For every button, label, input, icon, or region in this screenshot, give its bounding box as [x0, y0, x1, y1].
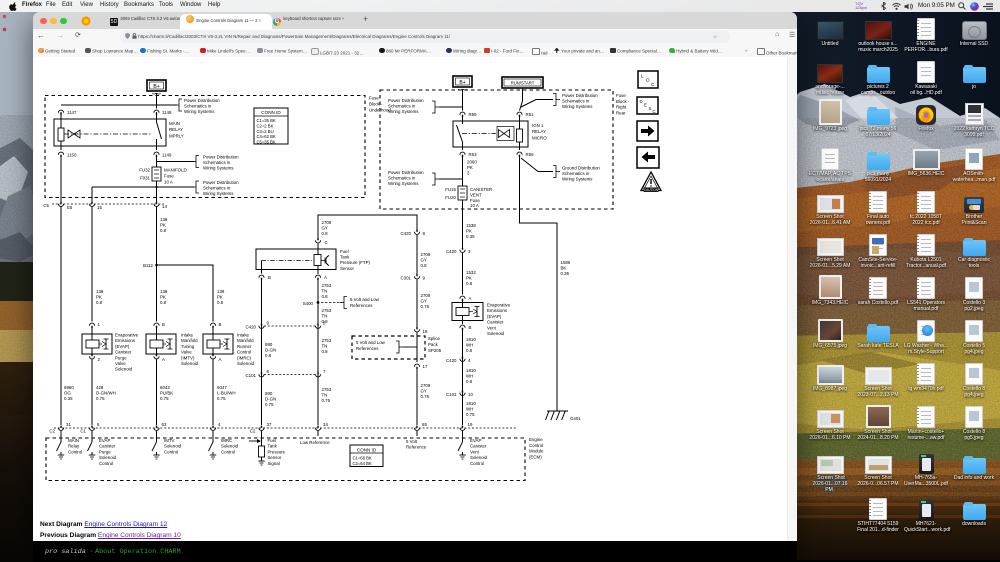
svg-text:Wiring Systems: Wiring Systems — [203, 191, 234, 196]
svg-text:17: 17 — [423, 364, 428, 369]
svg-text:R53: R53 — [469, 152, 478, 157]
svg-text:5: 5 — [97, 422, 100, 427]
svg-text:C1=35 BK: C1=35 BK — [257, 118, 276, 123]
wire fuse to 14 — [156, 181, 158, 202]
svg-text:2: 2 — [98, 357, 101, 362]
wire 2709 to splice pack — [416, 280, 418, 328]
svg-text:Fuse: Fuse — [369, 96, 379, 101]
svg-text:1810: 1810 — [466, 401, 476, 406]
splice pack SP205 — [352, 332, 442, 362]
svg-text:A: A — [324, 275, 327, 280]
svg-text:1150: 1150 — [67, 153, 77, 158]
svg-text:RUN/START: RUN/START — [511, 81, 535, 86]
svg-text:TN: TN — [322, 314, 328, 319]
svg-text:C: C — [653, 109, 656, 114]
svg-text:Wiring Systems: Wiring Systems — [562, 104, 593, 109]
svg-text:C5: C5 — [43, 203, 49, 208]
connector C101 row (pins 8,7) — [246, 369, 327, 378]
svg-text:Right: Right — [616, 105, 627, 110]
svg-text:31: 31 — [66, 422, 71, 427]
svg-text:Power Distribution: Power Distribution — [203, 155, 239, 160]
svg-text:Engine: Engine — [529, 437, 543, 442]
svg-text:5 Volt and Low: 5 Volt and Low — [356, 340, 386, 345]
svg-text:3: 3 — [468, 249, 471, 254]
svg-text:WH: WH — [466, 343, 473, 348]
svg-text:10: 10 — [468, 392, 473, 397]
svg-text:EVAP: EVAP — [99, 438, 110, 443]
svg-text:Wiring Systems: Wiring Systems — [388, 109, 419, 114]
svg-text:6042: 6042 — [160, 385, 170, 390]
driver main relay control — [57, 431, 83, 459]
node A (FTP signal) — [315, 275, 327, 280]
svg-text:Control: Control — [221, 449, 235, 454]
svg-text:References: References — [350, 303, 373, 308]
menu bar — [0, 0, 1000, 12]
svg-text:PK: PK — [217, 295, 223, 300]
svg-text:Canister: Canister — [99, 444, 116, 449]
svg-text:EVAP: EVAP — [470, 438, 481, 443]
svg-text:Solenoid: Solenoid — [99, 455, 117, 460]
svg-text:GY: GY — [421, 299, 427, 304]
svg-text:2753: 2753 — [322, 308, 332, 313]
svg-text:Canister: Canister — [470, 444, 487, 449]
svg-text:GY: GY — [421, 258, 427, 263]
svg-text:1586: 1586 — [561, 260, 571, 265]
svg-text:Solenoid: Solenoid — [181, 361, 199, 366]
svg-text:Splice: Splice — [428, 336, 441, 341]
svg-text:1532: 1532 — [466, 270, 476, 275]
svg-text:Purge: Purge — [115, 355, 127, 360]
svg-text:0.8: 0.8 — [265, 353, 272, 358]
svg-text:A: A — [162, 357, 165, 362]
svg-text:Power Distribution: Power Distribution — [562, 93, 598, 98]
svg-text:4: 4 — [468, 358, 471, 363]
svg-text:C3=2 BU: C3=2 BU — [257, 129, 274, 134]
svg-text:Power Distribution: Power Distribution — [388, 170, 424, 175]
svg-text:Wiring Systems: Wiring Systems — [388, 181, 419, 186]
svg-text:MPRLY: MPRLY — [169, 133, 184, 138]
wire B+ to R59 — [462, 89, 464, 111]
svg-text:Evaporative: Evaporative — [487, 303, 511, 308]
svg-text:0.8: 0.8 — [322, 294, 329, 299]
svg-text:Signal: Signal — [268, 461, 280, 466]
svg-text:MANIFOLD: MANIFOLD — [164, 168, 187, 173]
svg-text:Relay: Relay — [68, 444, 80, 449]
svg-text:0.75: 0.75 — [96, 396, 105, 401]
wire 1149 to fuse — [156, 156, 158, 167]
ground G401 — [546, 411, 582, 421]
svg-text:C420: C420 — [446, 249, 457, 254]
nav button DESC — [637, 97, 658, 114]
svg-text:Solenoid: Solenoid — [221, 444, 239, 449]
svg-text:2753: 2753 — [322, 283, 332, 288]
svg-text:Power Distribution: Power Distribution — [203, 180, 239, 185]
svg-text:Schematics in: Schematics in — [184, 104, 212, 109]
svg-text:2060: 2060 — [467, 160, 477, 165]
svg-text:C101: C101 — [246, 373, 257, 378]
svg-text:Vent: Vent — [470, 449, 480, 454]
svg-text:C301: C301 — [401, 276, 412, 281]
svg-text:3: 3 — [467, 171, 470, 176]
svg-text:SP205: SP205 — [428, 348, 442, 353]
svg-text:Evaporative: Evaporative — [115, 333, 139, 338]
svg-text:TN: TN — [322, 289, 328, 294]
nav button next arrow — [637, 121, 658, 141]
wire 2060 R53 to fuse — [462, 156, 464, 186]
node A vent solenoid — [460, 296, 472, 301]
svg-text:Power Distribution: Power Distribution — [184, 98, 220, 103]
svg-text:Schematics in: Schematics in — [388, 104, 416, 109]
svg-text:B: B — [469, 325, 472, 330]
svg-text:C4=62 BK: C4=62 BK — [257, 134, 276, 139]
connector C420 pin 3 — [446, 248, 471, 254]
svg-text:0.8: 0.8 — [421, 263, 428, 268]
sensor FTP fuel tank pressure — [256, 249, 371, 271]
svg-text:890: 890 — [265, 391, 273, 396]
CONN ID table (ECM) — [350, 445, 383, 467]
svg-text:B+: B+ — [459, 80, 465, 86]
svg-text:CONN ID: CONN ID — [357, 447, 377, 452]
driver EVAP purge control — [88, 431, 117, 466]
svg-text:C: C — [325, 240, 328, 245]
connector C420 pin 4 — [446, 357, 471, 363]
svg-text:WH: WH — [466, 407, 473, 412]
svg-text:0.8: 0.8 — [322, 231, 329, 236]
CONN ID table (fuse block) — [254, 108, 288, 145]
node R53 — [460, 152, 477, 157]
svg-text:Ground Distribution: Ground Distribution — [562, 166, 600, 171]
svg-text:Pressure (FTP): Pressure (FTP) — [340, 260, 371, 265]
svg-text:Sensor: Sensor — [268, 455, 282, 460]
svg-text:(ECM): (ECM) — [529, 454, 542, 459]
svg-text:Emissions: Emissions — [487, 308, 508, 313]
svg-text:L-BU/WH: L-BU/WH — [217, 391, 236, 396]
svg-text:R51: R51 — [526, 112, 535, 117]
node B vent solenoid — [460, 325, 472, 330]
svg-text:Solenoid: Solenoid — [487, 331, 505, 336]
browser window — [33, 12, 797, 562]
svg-text:139: 139 — [160, 217, 168, 222]
svg-text:53: 53 — [162, 422, 167, 427]
node B112 — [143, 263, 158, 268]
wire 2709 to C301 — [416, 235, 418, 275]
wire 139 PK to IMT — [156, 207, 158, 322]
wire 890 FTP signal down — [261, 279, 263, 425]
svg-text:6960: 6960 — [64, 385, 74, 390]
node 1147 — [58, 110, 77, 115]
svg-text:C2: C2 — [49, 429, 55, 434]
fuse block right rear box — [380, 90, 613, 209]
svg-text:C2: C2 — [250, 429, 256, 434]
svg-text:C: C — [651, 82, 655, 87]
label low reference — [300, 431, 330, 445]
svg-text:(IMTV): (IMTV) — [181, 355, 195, 360]
splice S400 — [303, 297, 380, 309]
desktop icons — [0, 0, 1000, 1]
svg-text:37: 37 — [267, 422, 272, 427]
svg-text:Solenoid: Solenoid — [115, 367, 133, 372]
battery feed B+ (left) — [147, 80, 166, 94]
svg-text:139: 139 — [160, 289, 168, 294]
label power distribution 2 — [157, 155, 240, 171]
svg-text:Wiring Systems: Wiring Systems — [184, 109, 215, 114]
wire 1150 to C5 — [60, 156, 62, 202]
svg-text:Purge: Purge — [99, 449, 111, 454]
svg-text:PK: PK — [96, 295, 102, 300]
svg-text:0.75: 0.75 — [421, 394, 430, 399]
svg-text:VENT: VENT — [470, 192, 482, 197]
wire 139 PK to EVAP purge — [91, 207, 93, 322]
svg-text:MICRO: MICRO — [532, 135, 547, 140]
svg-text:D-GN: D-GN — [265, 397, 276, 402]
svg-text:139: 139 — [96, 289, 104, 294]
wire B+ to relay — [156, 93, 158, 109]
svg-text:CONN ID: CONN ID — [261, 110, 281, 115]
solenoid EVAP canister vent — [452, 300, 511, 336]
svg-text:0.8: 0.8 — [217, 300, 224, 305]
svg-text:4: 4 — [218, 422, 221, 427]
svg-text:PK: PK — [160, 223, 166, 228]
svg-text:FU15: FU15 — [445, 187, 456, 192]
svg-text:R56: R56 — [526, 152, 535, 157]
ECM box — [46, 438, 525, 481]
svg-text:65: 65 — [422, 422, 427, 427]
svg-text:1538: 1538 — [466, 223, 476, 228]
svg-text:2709: 2709 — [421, 252, 431, 257]
svg-text:WH: WH — [466, 374, 473, 379]
svg-text:Emissions: Emissions — [115, 338, 136, 343]
svg-text:D-GN/WH: D-GN/WH — [96, 391, 116, 396]
wire 2753 low reference down — [317, 279, 319, 425]
svg-text:B+: B+ — [153, 84, 159, 90]
svg-text:9: 9 — [267, 321, 270, 326]
svg-text:S: S — [649, 106, 652, 111]
svg-text:1147: 1147 — [67, 110, 77, 115]
svg-text:2709: 2709 — [421, 293, 431, 298]
driver EVAP vent control — [458, 431, 488, 466]
svg-text:Control: Control — [164, 449, 178, 454]
svg-text:Rear: Rear — [616, 110, 626, 115]
svg-text:0.35: 0.35 — [64, 396, 73, 401]
svg-text:0.75: 0.75 — [265, 402, 274, 407]
svg-text:0.75: 0.75 — [466, 412, 475, 417]
svg-text:Wiring Systems: Wiring Systems — [562, 177, 593, 182]
svg-text:C420: C420 — [401, 231, 412, 236]
svg-text:2753: 2753 — [322, 387, 332, 392]
feed RUN/START — [502, 77, 543, 88]
svg-text:Fuel: Fuel — [268, 438, 277, 443]
svg-text:0.75: 0.75 — [160, 396, 169, 401]
svg-text:Schematics in: Schematics in — [562, 171, 590, 176]
svg-text:Block -: Block - — [616, 99, 630, 104]
svg-text:O: O — [646, 78, 650, 83]
svg-text:34: 34 — [323, 422, 328, 427]
node R59 — [460, 112, 477, 117]
wire 1810 segment 1 — [462, 329, 464, 425]
svg-text:0.35: 0.35 — [561, 271, 570, 276]
node R51 — [517, 112, 534, 117]
nav button previous arrow — [637, 147, 659, 168]
svg-text:14: 14 — [162, 204, 167, 209]
solenoid IMRC — [203, 322, 255, 366]
svg-text:IMTV: IMTV — [164, 438, 175, 443]
svg-text:9: 9 — [423, 276, 426, 281]
svg-text:Block -: Block - — [369, 102, 383, 107]
connector C5 row — [43, 202, 167, 210]
svg-text:C420: C420 — [246, 325, 257, 330]
svg-text:0.8: 0.8 — [160, 300, 167, 305]
svg-text:Pressure: Pressure — [268, 449, 286, 454]
wire 6047 IMRC control — [212, 362, 214, 425]
svg-text:CANISTER: CANISTER — [470, 187, 492, 192]
svg-text:PK: PK — [466, 229, 472, 234]
node splice pack pin 17 — [414, 364, 428, 369]
svg-text:IMRC: IMRC — [221, 438, 232, 443]
svg-text:7: 7 — [323, 369, 326, 374]
wire 2709 splice to ECM — [416, 368, 418, 425]
svg-text:PK: PK — [467, 165, 473, 170]
svg-text:Reference: Reference — [406, 445, 427, 450]
svg-text:Canister: Canister — [487, 320, 504, 325]
svg-text:Control: Control — [529, 443, 543, 448]
svg-text:PK: PK — [160, 295, 166, 300]
label power distribution 5 — [521, 93, 598, 109]
svg-text:1148: 1148 — [162, 110, 172, 115]
label power distribution 1 — [175, 98, 220, 114]
diagram SVG goes here — [33, 57, 797, 531]
solenoid EVAP canister purge — [82, 322, 139, 372]
svg-text:2709: 2709 — [421, 383, 431, 388]
svg-text:GY: GY — [421, 389, 427, 394]
svg-text:Schematics in: Schematics in — [388, 176, 416, 181]
wire branch B112 to IMRC — [157, 265, 214, 322]
node C (FTP 5V ref) — [315, 238, 327, 245]
relay IGN 1 RELAY MICRO — [453, 115, 547, 150]
svg-text:D-GN: D-GN — [265, 348, 276, 353]
svg-text:Module: Module — [529, 449, 544, 454]
svg-text:8: 8 — [267, 369, 270, 374]
svg-text:PK: PK — [466, 276, 472, 281]
svg-text:Control: Control — [237, 350, 251, 355]
driver IMTV control — [152, 431, 182, 459]
svg-text:Fuel: Fuel — [340, 249, 349, 254]
svg-text:Schematics in: Schematics in — [203, 160, 231, 165]
fuse F031 MANIFOLD 10A — [139, 167, 186, 185]
FTP signal input — [249, 431, 286, 466]
svg-text:C420: C420 — [446, 358, 457, 363]
svg-text:TN: TN — [322, 344, 328, 349]
svg-text:RELAY: RELAY — [169, 127, 183, 132]
connector C420 row (pins 9,5) — [246, 321, 327, 330]
svg-text:Valve: Valve — [181, 350, 192, 355]
svg-text:C101: C101 — [446, 392, 457, 397]
svg-text:1: 1 — [98, 322, 101, 327]
ECM connector row — [49, 422, 517, 434]
svg-text:8: 8 — [423, 231, 426, 236]
svg-text:B112: B112 — [143, 263, 153, 268]
svg-text:Solenoid: Solenoid — [164, 444, 182, 449]
label 5 volt reference — [406, 431, 427, 450]
node 1148 — [154, 110, 172, 115]
svg-text:Manifold: Manifold — [181, 338, 198, 343]
svg-text:RELAY: RELAY — [532, 129, 546, 134]
svg-text:FU32: FU32 — [139, 168, 150, 173]
svg-text:Tuning: Tuning — [181, 344, 195, 349]
svg-text:C1=68 BK: C1=68 BK — [353, 456, 372, 461]
wire top distribution — [61, 104, 177, 106]
svg-text:1810: 1810 — [466, 368, 476, 373]
fuse canister vent 10A — [445, 186, 492, 208]
svg-text:CAUTION: CAUTION — [644, 188, 659, 192]
node splice pack pin 18 — [414, 327, 428, 334]
svg-text:Valve: Valve — [115, 361, 126, 366]
svg-text:Pack: Pack — [428, 342, 439, 347]
svg-text:10 A: 10 A — [470, 203, 479, 208]
svg-text:Canister: Canister — [115, 350, 132, 355]
wire 1586 ground path — [520, 156, 558, 411]
solenoid IMTV — [146, 322, 199, 366]
wire 6960 main relay control — [60, 207, 62, 426]
svg-text:MAIN: MAIN — [169, 121, 180, 126]
svg-text:0.8: 0.8 — [160, 228, 167, 233]
nav button LOC — [638, 71, 658, 88]
svg-text:0.8: 0.8 — [466, 281, 473, 286]
wire 6042 IMTV control — [156, 362, 158, 425]
svg-text:R59: R59 — [469, 112, 478, 117]
svg-text:B: B — [268, 275, 271, 280]
wire fused feed branch — [92, 186, 194, 188]
wire 1538 vent fuse out — [462, 200, 464, 248]
svg-text:FU20: FU20 — [445, 195, 456, 200]
svg-text:PU/BK: PU/BK — [160, 391, 173, 396]
svg-text:Manifold: Manifold — [237, 338, 254, 343]
fuse block underhood box — [45, 96, 365, 198]
svg-text:IGN 1: IGN 1 — [532, 123, 544, 128]
caution symbol — [641, 172, 661, 192]
svg-text:Fuse: Fuse — [164, 174, 174, 179]
wire 428 EVAP purge control — [91, 362, 93, 425]
svg-text:Control: Control — [99, 461, 113, 466]
label ground distribution — [521, 158, 600, 182]
svg-text:2753: 2753 — [322, 338, 332, 343]
svg-text:19: 19 — [468, 422, 473, 427]
svg-text:(EVAP): (EVAP) — [115, 344, 130, 349]
svg-text:Vent: Vent — [487, 325, 497, 330]
svg-text:A: A — [219, 357, 222, 362]
svg-text:0.75: 0.75 — [322, 398, 331, 403]
svg-text:G401: G401 — [570, 416, 581, 421]
battery feed B+ (right) — [453, 76, 472, 90]
svg-text:OG: OG — [64, 391, 71, 396]
svg-text:0.75: 0.75 — [421, 304, 430, 309]
svg-text:S400: S400 — [303, 301, 314, 306]
svg-text:Sensor: Sensor — [340, 266, 354, 271]
svg-text:Intake: Intake — [237, 333, 250, 338]
svg-text:C5=35 BK: C5=35 BK — [257, 140, 276, 145]
svg-text:E5: E5 — [67, 205, 73, 210]
svg-text:A: A — [469, 296, 472, 301]
node 1149 — [154, 152, 172, 157]
wire 1532 to vent solenoid — [462, 253, 464, 295]
svg-text:Control: Control — [68, 449, 82, 454]
svg-text:L: L — [641, 74, 644, 79]
svg-text:0.8: 0.8 — [466, 348, 473, 353]
svg-text:Low Reference: Low Reference — [300, 440, 330, 445]
svg-text:Fuse: Fuse — [470, 198, 480, 203]
wire RUN/START to R51 — [520, 88, 523, 111]
svg-text:D: D — [640, 99, 643, 104]
svg-text:15: 15 — [97, 205, 102, 210]
